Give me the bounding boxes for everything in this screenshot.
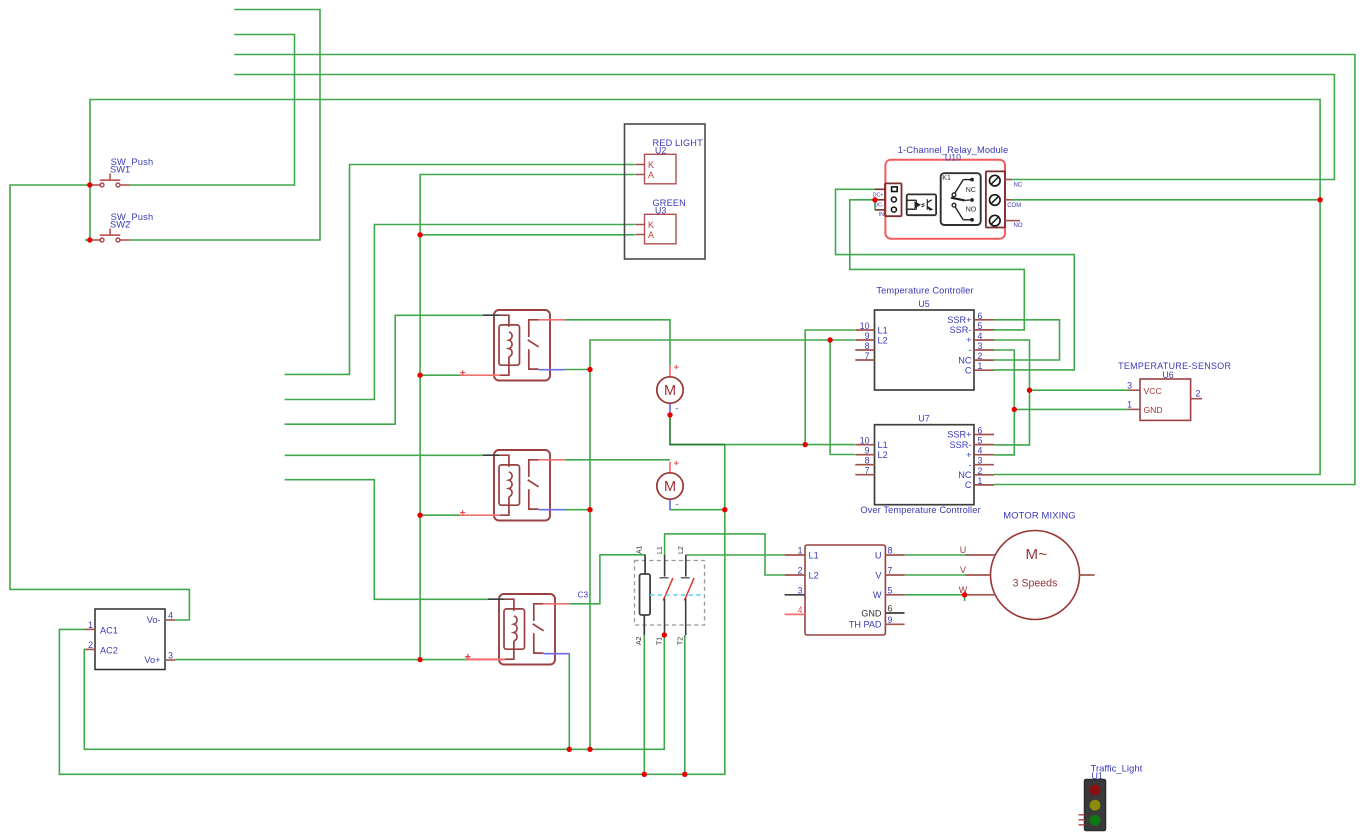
svg-text:U1: U1 [1092, 771, 1103, 781]
svg-text:L1: L1 [657, 546, 664, 554]
wire SW1 junction to Vo- (left edge drop) [10, 185, 189, 620]
wire relay RL3 coil top [285, 480, 488, 600]
wire relay RL2 coil top [285, 454, 483, 456]
wire COM terminal spur [1012, 199, 1320, 201]
svg-text:9: 9 [888, 615, 893, 625]
svg-text:GND: GND [1144, 405, 1163, 415]
svg-text:1: 1 [978, 476, 983, 486]
svg-text:U5: U5 [918, 299, 929, 309]
svg-text:C: C [965, 365, 972, 375]
svg-text:3 Speeds: 3 Speeds [1013, 578, 1058, 590]
wire W phase [905, 594, 966, 596]
svg-text:3: 3 [168, 650, 173, 660]
label U7 pin numbers [860, 426, 983, 486]
svg-text:10: 10 [860, 436, 870, 446]
wire SW2 to top loop [130, 10, 321, 241]
polarity + of RL1 coil [460, 370, 465, 375]
svg-text:6: 6 [978, 426, 983, 436]
LED U3 (GREEN) [635, 214, 676, 244]
svg-text:NO: NO [966, 204, 977, 213]
contactor main contact L2-T2 [681, 555, 694, 635]
svg-text:2: 2 [88, 640, 93, 650]
svg-text:Over Temperature Controller: Over Temperature Controller [860, 505, 980, 515]
svg-text:AC2: AC2 [100, 645, 118, 655]
wire motor-mixing L1 pin to contact L2 [686, 554, 785, 556]
svg-text:C3: C3 [578, 589, 589, 599]
svg-text:L1: L1 [878, 325, 888, 335]
wire motor-mixing L2 pin to contact L1 [665, 534, 785, 575]
wire RL1 contact bottom spur [565, 369, 590, 371]
svg-text:1: 1 [978, 361, 983, 371]
wire RL2 coil bottom spur [420, 514, 460, 516]
svg-text:A1: A1 [637, 545, 644, 554]
wire U5 pin10 branch [805, 330, 855, 445]
svg-text:3: 3 [798, 585, 803, 595]
wire L2 net: relay chain vertical + U5 pin9 [590, 340, 855, 749]
wire AC2 to contactor T1 [84, 635, 664, 749]
svg-text:K1: K1 [942, 175, 951, 182]
svg-text:V: V [960, 565, 966, 575]
svg-text:U: U [875, 550, 882, 560]
motor M1 [657, 366, 683, 414]
wire SW1 to SW2 link [89, 185, 91, 240]
wire RL2 contact to motor M2 [565, 459, 670, 461]
temperature sensor U6 [1128, 379, 1202, 420]
svg-text:2: 2 [1196, 389, 1201, 399]
svg-text:L2: L2 [809, 570, 819, 580]
wire RL3 contact bottom drop [568, 654, 570, 750]
svg-text:+: + [966, 450, 971, 460]
wire Vo+ to RL3 coil bottom [175, 659, 467, 661]
temperature controller U5 box [855, 310, 994, 390]
wire GND spur to U6 [1014, 408, 1128, 410]
connector J1 (DC+ DC- IN) [875, 183, 902, 216]
label U5 pin names [878, 315, 972, 375]
wire motor M2 bottom spur [670, 509, 725, 511]
svg-text:SSR-: SSR- [950, 440, 972, 450]
motor MOTOR MIXING (M~ 3 Speeds) [965, 531, 1095, 620]
svg-text:A: A [648, 230, 654, 240]
motor-mixing controller box [785, 545, 905, 635]
label AC-DC pins [88, 610, 173, 665]
svg-text:U7: U7 [918, 414, 929, 424]
wire U7 pin1 C net (top edge loop) [234, 55, 1355, 485]
switch SW1 (SW_Push) [90, 174, 130, 188]
wire RL3 contact to contactor coil A1 [570, 555, 645, 604]
svg-text:C: C [965, 480, 972, 490]
relay K1 [941, 173, 981, 225]
LED U2 (RED LIGHT) [635, 154, 676, 184]
svg-text:TH PAD: TH PAD [849, 620, 882, 630]
svg-text:1: 1 [88, 620, 93, 630]
svg-text:M~: M~ [1025, 546, 1047, 563]
svg-text:6: 6 [888, 604, 893, 614]
motor M2 [657, 462, 683, 510]
svg-text:U3: U3 [655, 206, 666, 216]
wire SW junction / COM / U7 pin2 NC net [90, 100, 1320, 475]
wire relay RL1 coil top [285, 315, 483, 424]
svg-text:L2: L2 [878, 450, 888, 460]
contactor C3 dashed outline [635, 561, 705, 626]
svg-text:W: W [873, 590, 882, 600]
svg-text:VCC: VCC [1144, 386, 1162, 396]
svg-text:L1: L1 [809, 550, 819, 560]
temperature controller U7 box [855, 425, 994, 505]
svg-text:4: 4 [978, 446, 983, 456]
polarity marks of M1 [674, 365, 678, 369]
wire VCC spur to U6 [1030, 389, 1129, 391]
svg-text:-: - [968, 460, 971, 470]
svg-text:NC: NC [958, 355, 972, 365]
svg-text:NO: NO [1014, 223, 1023, 229]
wire V phase [905, 574, 966, 576]
wire U5 pin6 to pin2 [994, 320, 1060, 360]
wire contactor A2 drop [643, 635, 645, 774]
svg-text:SW2: SW2 [110, 219, 130, 229]
svg-text:3: 3 [1127, 380, 1132, 390]
wire contactor T2 drop [684, 635, 686, 774]
svg-text:8: 8 [888, 546, 893, 556]
switch SW2 (SW_Push) [90, 229, 130, 243]
wire relay module NC terminal net [234, 75, 1334, 180]
wire neutral: x725 drop to AC1 [59, 445, 724, 775]
label U5 pin numbers [860, 311, 983, 371]
svg-text:3: 3 [978, 341, 983, 351]
wire U2 K net [285, 165, 635, 375]
svg-text:GND: GND [861, 608, 882, 618]
svg-text:SSR-: SSR- [950, 325, 972, 335]
svg-text:T1: T1 [656, 637, 663, 645]
svg-text:MOTOR MIXING: MOTOR MIXING [1003, 509, 1075, 520]
relay RL3 symbol [465, 594, 570, 665]
wire SW1 to top loop [130, 35, 295, 186]
wire RL1 contact to motor M1 [565, 320, 670, 366]
svg-text:NC: NC [966, 185, 976, 194]
lights enclosure box [625, 124, 706, 259]
relay RL2 symbol [460, 450, 565, 521]
svg-text:NC: NC [958, 470, 972, 480]
contactor main contact L1-T1 [660, 555, 673, 635]
svg-text:5: 5 [978, 436, 983, 446]
svg-text:U6: U6 [1162, 370, 1173, 380]
svg-text:-: - [968, 345, 971, 355]
wire motor M1 bottom to U7 pin10 [670, 444, 855, 446]
wire U5 pin3 / GND / U7 pin4 [994, 350, 1014, 455]
polarity + of RL3 coil [465, 654, 470, 659]
contactor coil A1-A2 [640, 555, 651, 635]
relay RL1 symbol [460, 310, 565, 381]
wire U5 pin1 to DC+ [836, 189, 1075, 370]
svg-text:AC1: AC1 [100, 625, 118, 635]
polarity + of RL2 coil [460, 510, 465, 515]
svg-text:3: 3 [978, 456, 983, 466]
svg-text:2: 2 [978, 351, 983, 361]
optocoupler [907, 194, 936, 215]
wire U5 pin5 to DC- [850, 200, 1025, 330]
svg-text:V: V [875, 570, 882, 580]
svg-text:2: 2 [798, 566, 803, 576]
contactor linkage (cyan dashed) [650, 594, 705, 596]
svg-text:10: 10 [860, 321, 870, 331]
svg-text:7: 7 [888, 566, 893, 576]
svg-text:U2: U2 [655, 146, 666, 156]
traffic light U1 [1079, 780, 1106, 831]
svg-text:A: A [648, 170, 654, 180]
svg-text:5: 5 [888, 585, 893, 595]
label motor-mixing pin names [809, 550, 883, 629]
svg-text:4: 4 [978, 331, 983, 341]
svg-text:T2: T2 [678, 637, 685, 645]
wire U5 pin4 / VCC / U7 pin5 [994, 340, 1030, 445]
wire SW2 left stub [85, 239, 90, 241]
wire U3 A spur [420, 234, 635, 236]
svg-text:4: 4 [168, 610, 173, 620]
svg-text:1: 1 [798, 546, 803, 556]
svg-text:SW1: SW1 [110, 164, 130, 174]
svg-text:M: M [664, 383, 676, 399]
svg-text:Temperature Controller: Temperature Controller [876, 286, 973, 296]
wire U2 A / U3 A vertical net [420, 175, 635, 660]
svg-text:6: 6 [978, 311, 983, 321]
svg-text:7: 7 [865, 351, 870, 361]
svg-text:NC: NC [1014, 182, 1023, 188]
AC-DC module box [86, 609, 176, 670]
svg-text:9: 9 [865, 446, 870, 456]
svg-text:U10: U10 [945, 153, 961, 163]
svg-text:TEMPERATURE-SENSOR: TEMPERATURE-SENSOR [1118, 361, 1231, 371]
svg-text:7: 7 [865, 466, 870, 476]
svg-text:2: 2 [978, 466, 983, 476]
svg-text:DC-: DC- [874, 203, 883, 209]
svg-text:M: M [664, 479, 676, 495]
svg-text:+: + [966, 335, 971, 345]
svg-text:8: 8 [865, 341, 870, 351]
svg-text:SSR+: SSR+ [947, 315, 971, 325]
svg-text:9: 9 [865, 331, 870, 341]
wire RL1 coil bottom spur [420, 374, 460, 376]
svg-text:Vo-: Vo- [147, 615, 161, 625]
terminal block NC COM NO [986, 171, 1020, 227]
wire U3 K net [285, 225, 635, 400]
svg-text:1: 1 [1127, 400, 1132, 410]
svg-text:K: K [648, 220, 654, 230]
wire branch to U7 pin9 [830, 340, 855, 455]
polarity + near RL3 coil bottom [465, 654, 470, 659]
svg-text:K: K [648, 160, 654, 170]
svg-text:L2: L2 [878, 335, 888, 345]
label motor-mixing pin numbers [798, 546, 893, 625]
polarity marks of M2 [674, 461, 678, 465]
svg-text:IN: IN [879, 212, 884, 218]
svg-text:5: 5 [978, 321, 983, 331]
relay module U10 (1-Channel_Relay_Module) [885, 160, 1005, 239]
svg-text:L1: L1 [878, 440, 888, 450]
svg-text:L2: L2 [678, 546, 685, 554]
svg-text:A2: A2 [636, 636, 643, 645]
label U7 pin names [878, 430, 972, 490]
svg-text:Vo+: Vo+ [144, 655, 160, 665]
wire DC- to IN link [874, 200, 876, 210]
wire U phase [905, 554, 966, 556]
wire RL2 contact bottom spur [565, 509, 590, 511]
svg-text:COM: COM [1007, 203, 1021, 209]
svg-text:4: 4 [798, 605, 803, 615]
wire W stub down [964, 595, 966, 601]
wire motor M1 bottom overlap (dark) [670, 415, 725, 445]
svg-text:SSR+: SSR+ [947, 430, 971, 440]
svg-text:U: U [960, 545, 967, 555]
svg-text:8: 8 [865, 456, 870, 466]
